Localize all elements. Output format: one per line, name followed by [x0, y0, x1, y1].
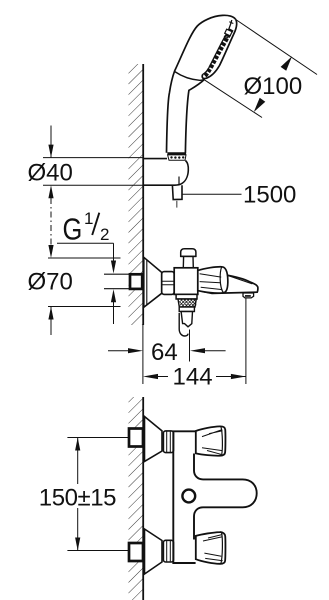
- svg-text:Ø100: Ø100: [244, 73, 303, 100]
- svg-text:Ø70: Ø70: [28, 269, 73, 296]
- svg-text:G: G: [63, 211, 83, 246]
- svg-text:Ø40: Ø40: [28, 160, 73, 187]
- svg-text:144: 144: [173, 364, 213, 391]
- svg-text:2: 2: [100, 225, 109, 244]
- svg-text:150±15: 150±15: [39, 485, 116, 512]
- svg-text:64: 64: [151, 339, 178, 366]
- svg-text:1500: 1500: [243, 182, 296, 209]
- svg-text:1: 1: [84, 209, 93, 228]
